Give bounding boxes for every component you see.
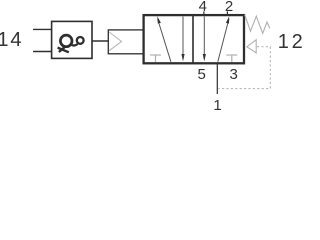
svg-text:12: 12 bbox=[278, 31, 303, 53]
svg-text:5: 5 bbox=[198, 66, 206, 83]
svg-text:3: 3 bbox=[230, 66, 238, 83]
svg-text:2: 2 bbox=[225, 0, 233, 15]
svg-text:4: 4 bbox=[199, 0, 207, 15]
svg-text:14: 14 bbox=[0, 29, 23, 51]
svg-text:1: 1 bbox=[213, 97, 221, 112]
